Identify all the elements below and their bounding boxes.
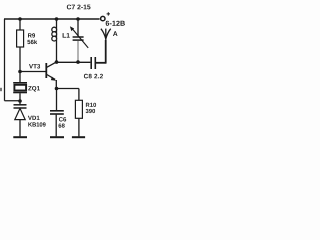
scan mark left margin [0, 88, 2, 91]
label 6-12B [106, 21, 125, 26]
wire left bias branch [5, 19, 21, 101]
label R9 value 56k [27, 40, 37, 44]
resistor R9 leads [19, 19, 21, 72]
node rail-L1 [55, 17, 59, 21]
wire emitter to R10 [57, 88, 79, 90]
label R10 [86, 103, 96, 107]
label L1 [63, 33, 70, 38]
wire base [20, 71, 46, 73]
ground below VD1 [13, 136, 27, 138]
resistor R10 leads [78, 89, 80, 137]
capacitor C8 [91, 57, 106, 69]
resistor R9 [17, 30, 24, 47]
node collector [55, 60, 59, 64]
wire antenna lead [105, 40, 107, 64]
label R10 value 390 [86, 109, 96, 113]
terminal +6-12V supply [101, 16, 105, 20]
transistor VT3 [46, 62, 56, 89]
ground below R10 [72, 136, 85, 138]
resistor R10 [75, 100, 82, 118]
node rail-R9 [18, 17, 22, 21]
label C6 [59, 117, 66, 121]
wire collector to C8 [57, 61, 91, 63]
label VT3 [29, 64, 40, 68]
node rail-C7 [76, 17, 80, 21]
varicap VD1 [14, 101, 27, 136]
node collector-C7 [76, 60, 80, 64]
label VD1 type KB109 [28, 122, 45, 126]
label A antenna [113, 31, 118, 36]
capacitor C7 trimmer [70, 19, 88, 62]
antenna A [101, 29, 111, 42]
wire top supply rail [4, 18, 100, 20]
label C6 value 68 [59, 124, 65, 128]
label C8 value 2.2 [84, 74, 103, 79]
node ZQ1-VD1 [18, 99, 22, 103]
inductor L1 [52, 19, 57, 62]
capacitor C6 [50, 89, 64, 137]
label C7 2-15 [67, 5, 91, 10]
label R9 [28, 33, 35, 37]
label ZQ1 [28, 86, 40, 92]
node base [18, 70, 22, 74]
ground below C6 [50, 136, 64, 138]
crystal ZQ1 [13, 72, 27, 102]
label VD1 [28, 116, 40, 120]
node emitter [55, 87, 59, 91]
